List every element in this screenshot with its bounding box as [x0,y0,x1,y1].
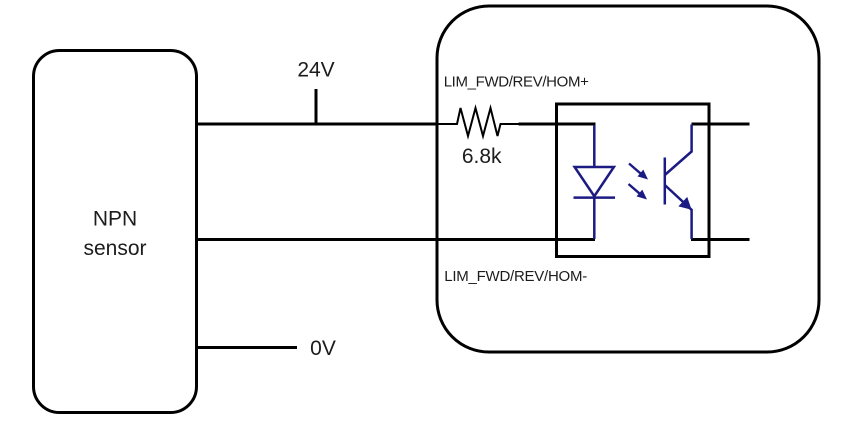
svg-text:6.8k: 6.8k [462,145,502,168]
wire: optocoupler collector output [692,123,750,126]
enclosure box (drive input) [437,6,819,352]
svg-text:LIM_FWD/REV/HOM+: LIM_FWD/REV/HOM+ [444,73,589,90]
svg-text:sensor: sensor [83,237,146,260]
light arrow 1 [629,164,648,180]
24V supply tick [315,89,318,124]
LED D1 (optocoupler emitter diode) [574,125,616,239]
light arrow 2 [629,184,648,200]
optocoupler box U1 [557,104,710,257]
resistor 6.8k [437,108,519,136]
label NPN sensor [83,208,146,261]
wire middle: sensor output to optocoupler cathode [197,238,596,241]
NPN sensor box [34,51,197,413]
svg-text:0V: 0V [310,337,336,360]
wire: resistor to optocoupler anode [519,123,596,126]
wire bottom: sensor 0V [197,346,298,349]
svg-text:NPN: NPN [93,208,137,231]
wire top: sensor output to resistor [197,123,438,126]
svg-text:24V: 24V [297,59,334,82]
wire: optocoupler emitter output [691,238,750,241]
svg-text:LIM_FWD/REV/HOM-: LIM_FWD/REV/HOM- [444,268,587,285]
phototransistor Q1 [665,125,692,240]
